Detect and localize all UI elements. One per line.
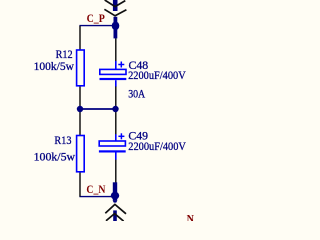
svg-text:C_P: C_P [87,11,105,25]
svg-text:N: N [187,212,195,221]
svg-text:2200uF/400V: 2200uF/400V [128,139,186,153]
svg-text:C_N: C_N [86,182,105,196]
svg-text:30A: 30A [128,86,145,100]
svg-text:2200uF/400V: 2200uF/400V [128,68,186,82]
svg-text:100k/5w: 100k/5w [34,59,75,73]
svg-text:100k/5w: 100k/5w [34,149,76,163]
svg-text:R13: R13 [54,133,71,147]
